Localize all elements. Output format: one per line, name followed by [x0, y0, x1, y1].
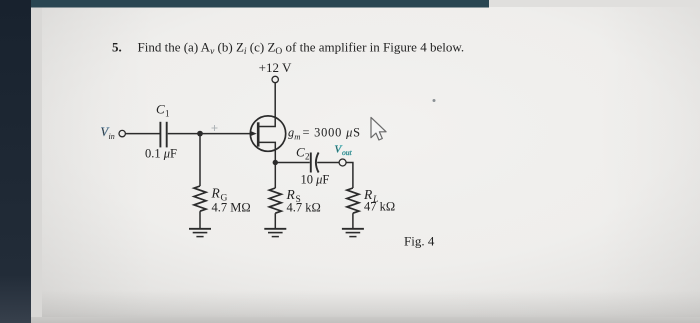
transistor Q1 channel bar: [257, 122, 260, 146]
Vin label: [101, 125, 115, 141]
svg-text:10 μF: 10 μF: [301, 173, 330, 187]
output terminal: [339, 159, 346, 166]
svg-text:= 3000 μS: = 3000 μS: [303, 125, 361, 139]
resistor RL: [347, 188, 359, 213]
left margin strip: [31, 7, 42, 317]
transistor Q1 gate arrow: [250, 131, 257, 136]
transistor Q1 source contact: [259, 142, 275, 162]
wire RG to ground: [199, 211, 201, 228]
svg-text:m: m: [294, 131, 300, 141]
bottom edge shading: [31, 290, 700, 323]
artifact mark: [212, 125, 218, 131]
wire input to C1: [126, 133, 160, 135]
title text: [112, 40, 464, 58]
wire C2 to output terminal: [317, 162, 339, 164]
node gate junction: [197, 131, 203, 137]
wire node to RG: [199, 134, 201, 186]
RL name label: [363, 187, 378, 205]
svg-text:4.7 kΩ: 4.7 kΩ: [287, 201, 321, 215]
svg-text:C: C: [296, 145, 305, 160]
capacitor C1: [160, 122, 166, 148]
Vout label: [335, 144, 353, 158]
wire source node to C2: [275, 162, 310, 164]
C1 name label: [156, 102, 170, 119]
wire output terminal to RL: [346, 163, 353, 189]
wire source node to RS: [274, 163, 276, 189]
wire RS to ground: [274, 213, 276, 228]
svg-text:4.7 MΩ: 4.7 MΩ: [212, 201, 251, 215]
svg-text:2: 2: [305, 152, 310, 162]
svg-text:in: in: [109, 132, 115, 141]
wire C1 to gate: [168, 133, 251, 135]
svg-text:0.1 μF: 0.1 μF: [145, 147, 177, 161]
ground below RL: [342, 229, 364, 237]
svg-text:47 kΩ: 47 kΩ: [364, 200, 395, 214]
wire supply to drain: [259, 83, 275, 127]
RG name label: [211, 186, 228, 204]
dark top strip: [31, 0, 489, 8]
mouse cursor: [371, 117, 386, 140]
node source junction: [273, 160, 278, 165]
supply terminal: [272, 76, 278, 82]
transistor Q1 body circle: [250, 116, 285, 151]
svg-text:out: out: [342, 148, 353, 157]
gm label: [288, 125, 361, 141]
svg-text:1: 1: [165, 109, 170, 119]
RS name label: [286, 187, 301, 205]
wire RL to ground: [352, 213, 354, 228]
svg-text:+12 V: +12 V: [259, 60, 292, 75]
svg-text:5.Find the (a) Av (b) Zi (c): 5.Find the (a) Av (b) Zi (c) ZO of the a…: [112, 40, 464, 58]
dark left sidebar: [0, 0, 31, 323]
svg-text:R: R: [211, 186, 221, 201]
+12V supply label: [259, 60, 292, 75]
capacitor C2: [311, 153, 319, 173]
ground below RG: [189, 229, 211, 237]
resistor RS: [269, 188, 281, 213]
artifact speck: [433, 99, 436, 102]
resistor RG: [194, 186, 206, 211]
input terminal: [119, 130, 125, 136]
ground below RS: [264, 229, 286, 237]
svg-text:C: C: [156, 102, 165, 117]
svg-text:Fig. 4: Fig. 4: [404, 234, 435, 249]
C2 name label: [296, 145, 310, 162]
